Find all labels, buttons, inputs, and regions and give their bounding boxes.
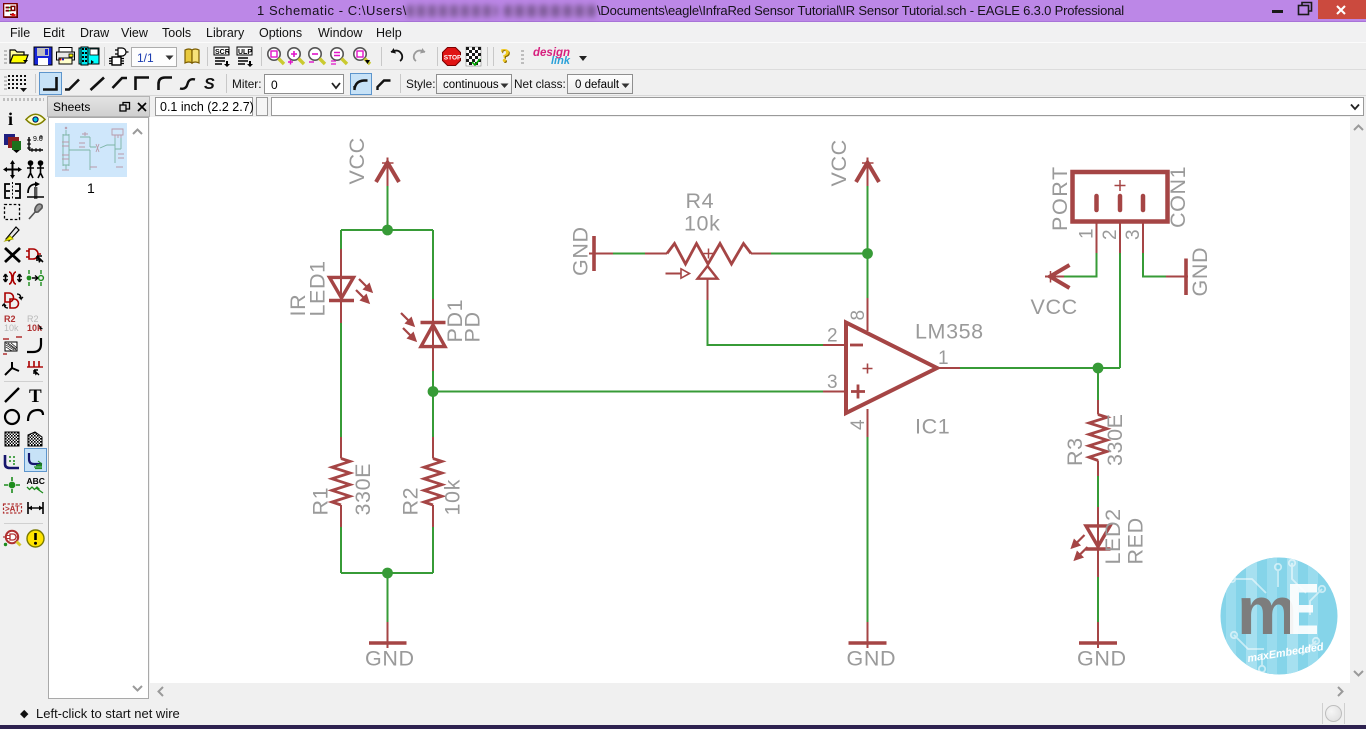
- svg-text:1: 1: [1077, 228, 1098, 239]
- node A junction: [382, 225, 393, 236]
- cam processor: [78, 46, 100, 66]
- copy: [25, 159, 46, 180]
- svg-text:3: 3: [827, 372, 838, 393]
- gateswap: [2, 290, 24, 311]
- svg-text:RED: RED: [1124, 517, 1148, 564]
- mirror: [2, 181, 23, 201]
- svg-text:10k: 10k: [4, 323, 19, 333]
- sheets panel: [48, 117, 149, 699]
- dimension: [25, 498, 46, 518]
- svg-text:STOP: STOP: [444, 55, 462, 62]
- smash: [2, 335, 23, 355]
- wire node B to GND: [387, 573, 389, 622]
- svg-text:SCR: SCR: [215, 49, 230, 56]
- svg-text:330E: 330E: [1103, 413, 1127, 466]
- design link logo: [533, 47, 570, 59]
- sheet combo 1/1: [131, 47, 177, 67]
- resistor R2: [424, 437, 442, 527]
- display layers: [3, 133, 23, 153]
- wire top rail to PD1: [432, 230, 434, 299]
- svg-text:9.0: 9.0: [33, 136, 43, 143]
- zoom select: [351, 46, 373, 68]
- svg-text:ULP: ULP: [238, 49, 252, 56]
- wire R1 to bottom rail: [340, 527, 342, 573]
- row 3 : sheets header + coordinate + command line: [0, 96, 1366, 117]
- bend style selected box: [39, 72, 62, 95]
- svg-text:330E: 330E: [351, 463, 375, 516]
- svg-text:PD: PD: [461, 311, 485, 342]
- help: [500, 45, 510, 68]
- node B junction: [382, 568, 393, 579]
- connector CON1: [1073, 172, 1168, 253]
- svg-text:R3: R3: [1063, 437, 1087, 466]
- zoom out: [306, 46, 328, 68]
- svg-text:10k: 10k: [441, 479, 465, 515]
- diode LED1: [329, 249, 372, 323]
- svg-text:IC1: IC1: [915, 415, 950, 439]
- node C junction: [428, 386, 439, 397]
- svg-text:VCC: VCC: [827, 139, 851, 186]
- run script SCR: [212, 46, 234, 67]
- maxEmbedded logo: [1220, 557, 1338, 675]
- svg-text:LED1: LED1: [306, 260, 330, 316]
- svg-text:VCC: VCC: [1031, 295, 1078, 319]
- power symbol VCC (right): [1045, 265, 1070, 288]
- diode LED2: [1072, 507, 1111, 577]
- text: [29, 386, 42, 408]
- right vertical scrollbar: [1350, 117, 1366, 683]
- wire bottom rail: [341, 572, 433, 574]
- wire op-amp pin 4 to GND: [867, 437, 869, 622]
- change: [25, 202, 46, 222]
- pinswap: [2, 268, 23, 288]
- svg-text:R2: R2: [399, 487, 423, 516]
- left tool palette: [0, 96, 47, 700]
- close: [1318, 0, 1366, 19]
- library book: [182, 46, 203, 67]
- ground GND (CON1): [1166, 259, 1188, 296]
- wire GND to R4: [613, 253, 645, 255]
- photodiode PD1: [401, 299, 446, 371]
- svg-text:LM358: LM358: [915, 320, 984, 344]
- wire CON1 pin3 to GND: [1143, 253, 1166, 277]
- group: [2, 202, 23, 222]
- svg-text:GND: GND: [1188, 247, 1212, 297]
- wire node C to op-amp pin 3: [433, 391, 823, 393]
- erc check: [464, 46, 483, 67]
- wire node E to R3: [1097, 368, 1099, 400]
- info: [8, 109, 13, 130]
- svg-text:GND: GND: [365, 647, 415, 671]
- wire LED1 cathode to R1: [340, 323, 342, 437]
- wire R2 to bottom rail: [432, 527, 434, 573]
- wire to LED1 anode: [340, 230, 342, 250]
- run ULP: [235, 46, 257, 67]
- svg-text:R4: R4: [686, 189, 715, 213]
- resistor R3: [1089, 400, 1107, 476]
- svg-text:R1: R1: [309, 487, 333, 516]
- toolbar row 1: [0, 42, 1366, 70]
- op-amp U1 LM358: [823, 298, 960, 437]
- svg-text:ABC: ABC: [27, 476, 45, 486]
- svg-text:GND: GND: [1077, 647, 1127, 671]
- svg-text:CON1: CON1: [1166, 166, 1190, 228]
- menu bar: [0, 22, 1366, 42]
- svg-text:8: 8: [848, 310, 869, 321]
- ground GND (left): [369, 622, 407, 648]
- errors: [25, 528, 46, 549]
- title bar: [0, 0, 1366, 22]
- svg-text:VCC: VCC: [345, 137, 369, 184]
- status bar: [0, 700, 1366, 727]
- rect: [2, 429, 23, 449]
- junction: [2, 475, 23, 495]
- invoke: [25, 358, 46, 378]
- circle: [2, 407, 23, 427]
- zoom redraw: [328, 46, 350, 68]
- zoom fit: [265, 46, 287, 68]
- wire VCC stem to node A: [387, 186, 389, 230]
- svg-text:>AT: >AT: [5, 505, 20, 514]
- split: [2, 358, 23, 378]
- resistor R1: [332, 437, 350, 527]
- power symbol VCC (middle): [856, 158, 879, 187]
- undo: [387, 47, 407, 65]
- svg-text:3: 3: [1123, 229, 1144, 240]
- show: [25, 113, 46, 126]
- wire R4 wiper down and to op-amp pin 2: [708, 300, 824, 345]
- gate select: [108, 46, 129, 67]
- svg-text:GND: GND: [569, 226, 593, 276]
- cut: [2, 223, 23, 244]
- svg-text:4: 4: [848, 419, 869, 430]
- wire LED2 to GND: [1097, 577, 1099, 622]
- svg-text:2: 2: [827, 326, 838, 347]
- svg-text:10k: 10k: [684, 212, 720, 236]
- svg-text:LED2: LED2: [1101, 508, 1125, 564]
- miter: [25, 335, 46, 355]
- stop: [441, 46, 462, 67]
- wire CON1 pin2 riser: [1119, 253, 1121, 368]
- replace: [25, 268, 46, 288]
- wire R3 to LED2: [1097, 476, 1099, 507]
- move: [2, 159, 23, 180]
- wire CON1 pin1 to VCC: [1064, 253, 1097, 277]
- schematic canvas: [150, 117, 1350, 683]
- open: [9, 47, 30, 66]
- label: [25, 475, 46, 495]
- value: [25, 313, 46, 333]
- restore: [1296, 0, 1314, 19]
- wire: [2, 385, 23, 405]
- save: [33, 46, 53, 66]
- polygon: [25, 429, 46, 449]
- erc: [2, 528, 23, 549]
- ground symbol GND (at R4): [589, 236, 613, 271]
- node E junction: [1093, 363, 1104, 374]
- arc: [25, 407, 46, 427]
- wire op-amp output net: [960, 367, 1120, 369]
- svg-text:PORT: PORT: [1048, 165, 1072, 231]
- delete: [2, 245, 23, 265]
- svg-text:2: 2: [1100, 229, 1121, 240]
- ground GND (middle): [849, 622, 887, 648]
- ground GND (right): [1079, 622, 1117, 648]
- power symbol VCC (left): [376, 158, 399, 187]
- wire PD1 to R2: [432, 371, 434, 437]
- wire R4 to node D: [771, 253, 868, 255]
- minimize: [1270, 0, 1286, 19]
- bus: [2, 452, 23, 472]
- bottom horizontal scrollbar: [150, 683, 1350, 700]
- net (selected): [24, 448, 47, 472]
- grid: [6, 72, 30, 94]
- potentiometer R4: [645, 244, 771, 301]
- svg-text:S: S: [204, 76, 215, 93]
- node D junction: [862, 248, 873, 259]
- add: [25, 245, 46, 265]
- print: [55, 46, 77, 66]
- svg-text:1: 1: [938, 348, 949, 369]
- name: [2, 313, 23, 333]
- wire VCC to op-amp pin 8: [867, 186, 869, 298]
- wire top rail: [341, 229, 433, 231]
- svg-text:GND: GND: [847, 647, 897, 671]
- toolbar row 2: [0, 70, 1366, 96]
- zoom in: [285, 46, 307, 68]
- redo: [409, 47, 429, 65]
- attribute: [2, 498, 23, 518]
- mark origin: [26, 133, 46, 153]
- rotate: [25, 181, 46, 201]
- svg-text:m: m: [1237, 573, 1297, 649]
